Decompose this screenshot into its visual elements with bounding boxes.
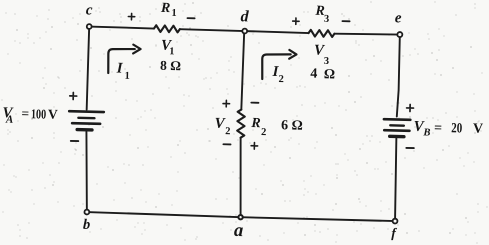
wire c to R1	[89, 27, 154, 29]
svg-text:2: 2	[225, 126, 231, 137]
svg-text:6 Ω: 6 Ω	[281, 118, 303, 134]
polarity plus R2 bottom	[251, 142, 258, 149]
svg-text:Ω: Ω	[324, 67, 336, 82]
svg-text:A: A	[5, 114, 14, 126]
resistor R1	[154, 25, 180, 32]
current arrow I1	[108, 44, 141, 74]
svg-text:d: d	[240, 8, 249, 25]
svg-text:B: B	[422, 127, 430, 138]
polarity minus V3	[342, 20, 349, 22]
wire R1 to d	[180, 29, 244, 31]
node b	[84, 210, 89, 215]
polarity plus VA	[70, 92, 77, 99]
wire c to battery VA	[87, 27, 90, 110]
svg-text:2: 2	[278, 74, 284, 85]
svg-text:=: =	[434, 121, 442, 136]
wire e to battery VB	[397, 35, 400, 117]
battery VA second long plate	[72, 122, 100, 125]
polarity plus V1	[128, 13, 135, 20]
svg-text:3: 3	[324, 14, 330, 25]
svg-text:8 Ω: 8 Ω	[160, 58, 181, 74]
polarity plus VB	[407, 104, 414, 111]
svg-text:3: 3	[324, 56, 330, 67]
battery VB bottom short plate	[390, 135, 404, 139]
svg-text:1: 1	[169, 46, 175, 57]
svg-text:1: 1	[171, 8, 177, 19]
polarity minus VA	[71, 140, 78, 142]
battery VB second long plate	[384, 129, 409, 132]
node c	[87, 24, 92, 29]
polarity minus VB	[406, 147, 413, 149]
node f	[393, 219, 398, 224]
svg-text:a: a	[234, 221, 244, 241]
polarity plus V2 top	[223, 100, 230, 107]
node d	[242, 29, 247, 34]
svg-text:R: R	[250, 116, 261, 131]
polarity minus R2 top	[251, 102, 258, 104]
svg-text:=: =	[21, 106, 29, 121]
svg-text:V: V	[473, 121, 483, 136]
wire R3 to e	[334, 33, 399, 35]
resistor R3	[308, 30, 334, 37]
svg-text:b: b	[83, 217, 91, 233]
svg-text:c: c	[86, 2, 93, 18]
wire d to R3	[244, 31, 308, 33]
battery VA top long plate	[69, 110, 104, 113]
battery VB short plate	[390, 124, 404, 127]
svg-text:V: V	[48, 106, 58, 121]
wire R2 to a	[239, 138, 243, 218]
polarity minus V1	[187, 17, 194, 19]
svg-text:20: 20	[451, 121, 462, 136]
node a	[238, 215, 243, 220]
polarity minus V2 bottom	[223, 143, 230, 145]
resistor R2	[237, 109, 245, 137]
node e	[397, 32, 402, 37]
svg-text:100: 100	[31, 106, 47, 121]
wire d to R2	[241, 31, 244, 110]
battery VA bottom short plate	[77, 128, 92, 132]
battery VB top long plate	[384, 118, 410, 121]
wire a to b	[87, 212, 241, 217]
svg-text:1: 1	[124, 71, 130, 82]
svg-text:2: 2	[261, 127, 267, 138]
battery VA short plate	[78, 117, 94, 120]
wire f to a	[241, 217, 395, 221]
polarity plus V3	[293, 18, 300, 25]
svg-text:e: e	[395, 10, 402, 26]
svg-text:R: R	[160, 1, 171, 16]
wire battery VB to f	[394, 138, 397, 221]
wire battery VA to b	[84, 132, 88, 212]
current arrow I2	[262, 49, 297, 80]
svg-text:4: 4	[310, 67, 317, 82]
